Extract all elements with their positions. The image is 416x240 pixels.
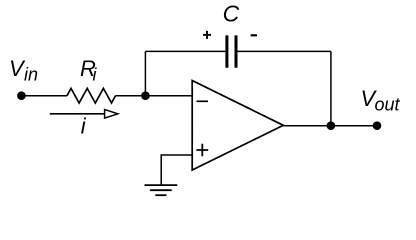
wire resistor to node A — [116, 95, 146, 97]
node A junction dot — [141, 91, 150, 100]
capacitor C plates — [227, 35, 236, 67]
svg-text:i: i — [81, 114, 87, 139]
op-amp non-inverting input plus sign — [196, 144, 208, 157]
wire feedback rail to capacitor left plate — [145, 50, 225, 52]
wire node A to op-amp inverting input — [145, 95, 192, 97]
capacitor minus polarity sign — [251, 34, 257, 36]
op-amp inverting input minus sign — [197, 100, 209, 102]
wire op-amp output to Vout terminal — [283, 125, 377, 127]
wire op-amp non-inverting input to ground stem — [161, 155, 192, 185]
svg-text:C: C — [223, 1, 240, 27]
svg-text:i: i — [93, 64, 98, 84]
svg-text:in: in — [24, 64, 38, 84]
wire node A up to feedback rail — [144, 51, 146, 95]
current arrow i — [50, 113, 105, 115]
wire feedback down to output node — [330, 51, 332, 125]
wire input from Vin terminal to resistor — [21, 95, 67, 97]
svg-text:out: out — [375, 95, 401, 115]
resistor Ri — [67, 88, 116, 103]
op-amp U1 triangle — [192, 81, 283, 171]
wire capacitor right plate to corner — [238, 50, 331, 52]
capacitor plus polarity sign — [203, 31, 211, 39]
node input terminal dot — [17, 91, 26, 100]
node Vout terminal dot — [373, 121, 382, 130]
ground — [145, 185, 178, 195]
node output junction dot — [327, 121, 336, 130]
